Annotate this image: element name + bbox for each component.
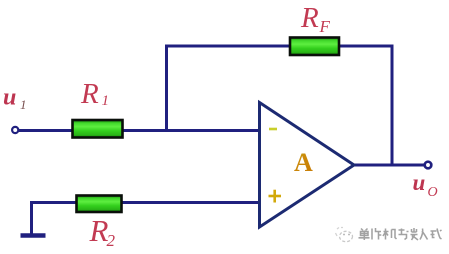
svg-text:A: A xyxy=(294,148,313,177)
char 式 xyxy=(431,229,442,240)
op-amp inverting input minus sign xyxy=(269,128,277,131)
wire: top feedback left segment to RF xyxy=(165,45,290,48)
svg-text:R: R xyxy=(80,78,99,110)
svg-text:R: R xyxy=(300,2,319,34)
op-amp non-inverting input plus sign xyxy=(269,190,282,203)
wire: ground corner to R2 xyxy=(30,201,76,204)
svg-text:u: u xyxy=(3,85,16,111)
svg-text:1: 1 xyxy=(102,93,110,109)
resistor R1 xyxy=(73,120,123,138)
op-amp U1 triangle xyxy=(260,103,355,228)
svg-text:2: 2 xyxy=(107,231,116,250)
input terminal u1 xyxy=(12,127,18,133)
ground xyxy=(21,201,46,236)
char 片 xyxy=(372,228,381,240)
svg-text:u: u xyxy=(413,170,426,195)
svg-text:R: R xyxy=(89,213,109,248)
watermark text (stylised CJK strokes) xyxy=(359,228,442,240)
wire: output from op-amp apex to terminal xyxy=(353,164,425,167)
resistor RF (feedback) xyxy=(290,38,339,56)
char 机 xyxy=(383,229,397,240)
watermark logo circle xyxy=(336,228,353,242)
svg-text:F: F xyxy=(319,17,331,36)
svg-text:O: O xyxy=(428,185,438,200)
char 入 xyxy=(420,229,428,240)
svg-text:1: 1 xyxy=(20,97,27,112)
wire: input terminal to inverting input xyxy=(18,129,259,132)
resistor R2 xyxy=(77,196,122,213)
wire: R2 to non-inverting input xyxy=(122,201,259,204)
wire: node A vertical riser from input line to feedback xyxy=(165,46,168,132)
wire: feedback vertical down to output node xyxy=(391,45,394,167)
char 嵌 xyxy=(411,228,419,240)
char 单 xyxy=(359,229,370,241)
output terminal uO xyxy=(425,162,432,169)
wire: top feedback right segment from RF xyxy=(339,45,393,48)
char 与 xyxy=(399,229,409,240)
